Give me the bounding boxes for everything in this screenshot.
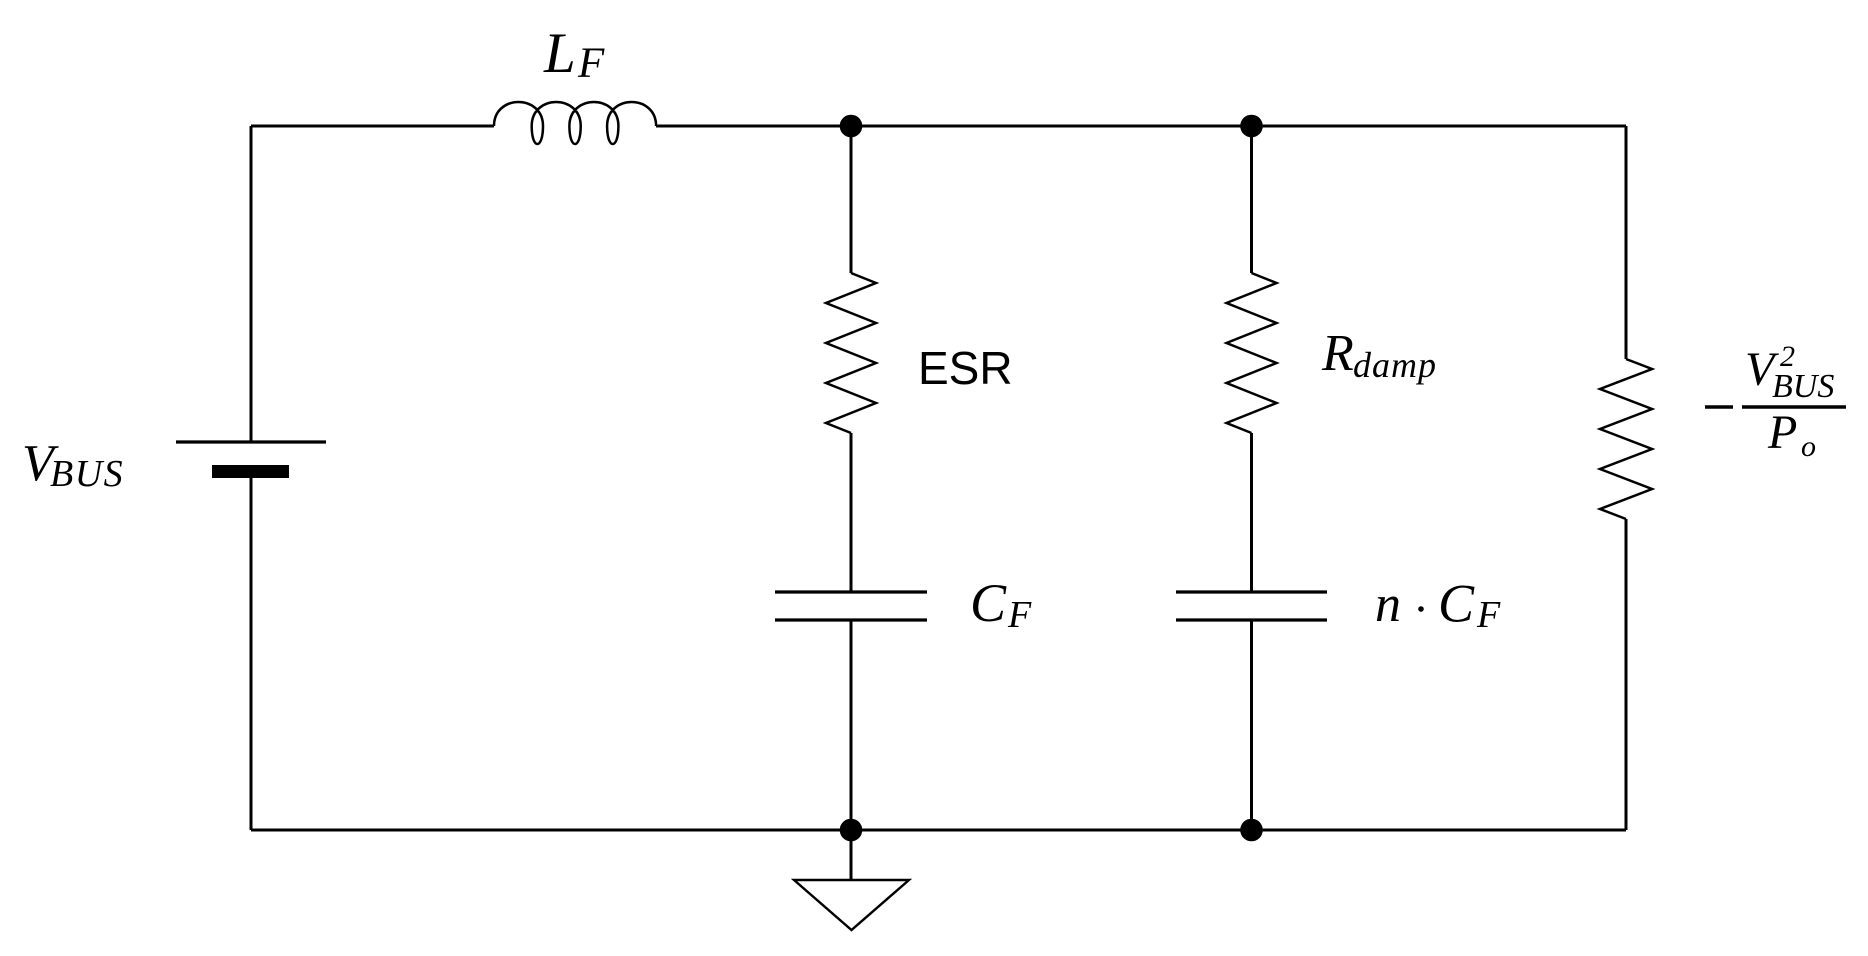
svg-text:P: P — [1767, 406, 1797, 459]
inductor LF — [494, 102, 656, 144]
capacitor CF — [775, 592, 927, 620]
wire CF to bottom — [850, 620, 853, 830]
svg-text:R: R — [1321, 325, 1354, 382]
svg-text:F: F — [1476, 594, 1501, 636]
svg-text:L: L — [543, 22, 576, 85]
ground wire stub — [850, 830, 853, 880]
wire left rail lower — [250, 478, 253, 830]
wire Rdamp branch top — [1250, 126, 1253, 273]
label LF — [543, 22, 605, 87]
node A top-left junction — [840, 115, 863, 138]
svg-text:C: C — [1438, 574, 1475, 634]
label Rdamp — [1321, 325, 1437, 385]
resistor -VBUS^2/Po — [1600, 359, 1652, 519]
battery VBUS top plate — [176, 440, 326, 443]
label -VBUS^2/Po fraction — [1705, 340, 1846, 463]
node D bottom-right junction — [1240, 819, 1263, 842]
svg-text:n: n — [1375, 576, 1401, 633]
svg-text:F: F — [1007, 594, 1032, 636]
svg-text:C: C — [970, 573, 1007, 633]
resistor Rdamp — [1227, 273, 1277, 433]
ground — [794, 880, 909, 930]
wire right rail upper — [1625, 126, 1628, 359]
wire top-left segment — [251, 125, 494, 128]
label CF — [970, 573, 1032, 636]
label VBUS — [22, 435, 124, 495]
wire ESR branch top — [850, 126, 853, 273]
wire Rdamp to nCF — [1250, 433, 1253, 592]
svg-text:F: F — [577, 40, 605, 87]
wire ESR to CF — [850, 433, 853, 592]
svg-text:BUS: BUS — [50, 453, 124, 495]
wire left rail upper — [250, 126, 253, 442]
svg-text:BUS: BUS — [1772, 368, 1834, 405]
wire nCF to bottom — [1250, 620, 1253, 830]
node B top-right junction — [1240, 115, 1263, 138]
svg-text:o: o — [1801, 430, 1816, 463]
battery VBUS bottom plate — [212, 465, 289, 478]
wire right rail lower — [1625, 519, 1628, 830]
resistor ESR — [826, 273, 876, 433]
label ESR — [918, 342, 1013, 394]
wire bottom rail — [251, 829, 1626, 832]
svg-text:ESR: ESR — [918, 342, 1013, 394]
node C bottom-left junction — [840, 819, 863, 842]
label nCF — [1375, 574, 1501, 637]
svg-text:damp: damp — [1353, 345, 1437, 385]
capacitor nCF — [1176, 592, 1327, 620]
wire top-right segment — [656, 125, 1626, 128]
